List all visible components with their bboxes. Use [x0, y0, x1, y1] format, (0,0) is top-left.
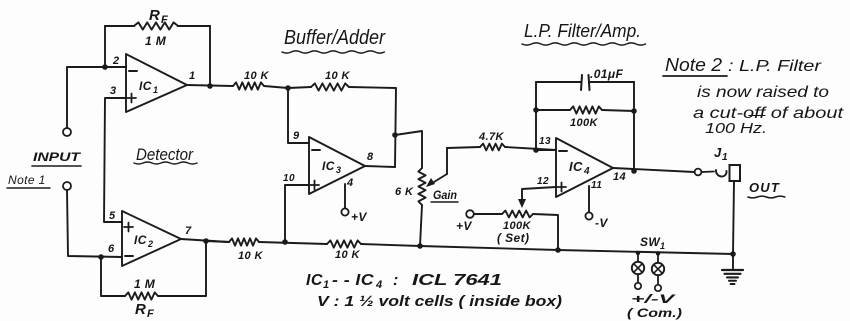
svg-text:IC: IC	[569, 159, 583, 174]
label INPUT	[33, 150, 82, 164]
svg-text:13: 13	[539, 136, 551, 147]
svg-text:9: 9	[293, 130, 300, 142]
svg-text:.01μF: .01μF	[590, 67, 624, 81]
svg-text:4: 4	[346, 177, 354, 189]
wire: pin 10 drop to rail	[285, 185, 309, 242]
wire: pin 11 drop	[588, 186, 590, 212]
jack J1 body (rectangle)	[730, 165, 741, 181]
underline Note 2	[663, 75, 727, 77]
underline Gain	[431, 201, 458, 203]
potentiometer 100K (Set)	[502, 211, 533, 218]
underline Buffer/Adder (wavy)	[282, 51, 384, 53]
terminal: IC3 +V (open circle)	[341, 208, 348, 215]
wire: SW1 drop 2	[657, 254, 659, 264]
wire: 100K pot to rail riser	[533, 214, 558, 250]
resistor 10K (bottom left)	[229, 238, 259, 245]
wire: IC3 output	[365, 166, 395, 167]
label 6K	[395, 186, 414, 198]
label pin 6	[108, 243, 115, 255]
node: set pot rail junction	[555, 247, 561, 253]
node: rail / IC3 plus junction	[282, 239, 288, 245]
label IC2	[134, 233, 153, 249]
label RF (bottom)	[135, 301, 154, 320]
node: 100K left junction	[533, 107, 539, 113]
wire: IC1 feedback left riser	[104, 26, 106, 67]
ground bars	[722, 270, 743, 284]
wire: rail right run	[361, 244, 733, 254]
underline INPUT	[32, 165, 81, 167]
resistor 4.7K	[480, 144, 505, 151]
wire: input top riser to pin 2	[67, 67, 126, 128]
label pin 5	[109, 210, 116, 222]
label 4.7K	[478, 131, 504, 143]
label pin 10	[283, 173, 295, 184]
svg-text:SW: SW	[640, 235, 661, 249]
svg-text:OUT: OUT	[749, 180, 780, 195]
wire: input bottom to pin 6	[67, 190, 122, 257]
label SW1	[640, 235, 665, 251]
svg-text:10: 10	[283, 173, 295, 184]
wire: 100K right lead	[602, 110, 634, 111]
node: IC3 minus input junction	[285, 85, 291, 91]
wire: IC2 feedback left drop	[101, 257, 125, 296]
resistor 100K (IC4 feedback)	[570, 106, 602, 113]
wire: IC4 feedback right riser	[633, 82, 635, 171]
svg-text:ICL 7641: ICL 7641	[412, 272, 502, 289]
svg-text:14: 14	[613, 171, 626, 183]
terminal: output plug tip (small circle)	[695, 169, 702, 176]
node: IC2 output/feedback junction	[203, 238, 209, 244]
terminal SW1-1 (small circle)	[635, 283, 641, 289]
node: pin2/feedback junction	[102, 64, 108, 70]
capacitor C .01uF plates	[581, 75, 590, 90]
label RF (top)	[149, 7, 168, 26]
svg-text:+/-V: +/-V	[631, 292, 676, 306]
terminal: input top (open circle)	[63, 128, 71, 136]
terminal SW1-2 (small circle)	[655, 285, 661, 291]
svg-text:1: 1	[189, 70, 196, 82]
node: rail / J1 ground junction	[730, 251, 736, 257]
wire: pin 3 to pin 5 riser	[104, 98, 126, 222]
underline Note 1	[7, 187, 50, 189]
svg-text:( Com.): ( Com.)	[627, 306, 682, 320]
svg-text:10 K: 10 K	[238, 250, 263, 262]
wire: 4.7K to pin 13	[505, 147, 556, 150]
label +V (IC3)	[351, 210, 367, 224]
svg-text:+V: +V	[456, 219, 472, 233]
IC1 minus sign	[129, 70, 137, 72]
IC3 plus sign	[310, 181, 319, 190]
svg-text:4: 4	[375, 279, 383, 291]
label 1M (top)	[145, 34, 167, 48]
svg-text:F: F	[161, 14, 168, 26]
label IC1	[139, 79, 158, 95]
wiper arrow of 100K set pot	[518, 199, 526, 208]
svg-text:2: 2	[147, 239, 153, 249]
svg-text:6: 6	[108, 243, 115, 255]
svg-text:F: F	[147, 308, 154, 320]
svg-text:5: 5	[109, 210, 116, 222]
label pin 1	[189, 70, 196, 82]
wire: IC3 feedback right riser	[349, 87, 396, 167]
potentiometer 6K (Gain)	[418, 168, 425, 205]
wire: 6K wiper riser	[446, 148, 448, 174]
label Note 1	[8, 173, 46, 187]
svg-text:IC: IC	[139, 79, 152, 93]
wire: IC1 feedback top-right lead	[178, 25, 210, 27]
wire: SW1 stem 1	[637, 274, 639, 283]
svg-text:1: 1	[660, 241, 665, 251]
label 1M (bottom)	[134, 277, 156, 291]
svg-text:7: 7	[185, 225, 192, 237]
label 100K (feedback)	[570, 117, 599, 129]
wire: node to 6K top	[395, 131, 422, 168]
svg-text:4.7K: 4.7K	[478, 131, 504, 143]
wire: SW1 drop 1	[637, 253, 639, 262]
svg-text:Note 1: Note 1	[8, 173, 46, 187]
label Detector	[136, 145, 194, 164]
wiper arrow of 6K	[426, 174, 447, 187]
wire: pin 12 to set-pot wiper	[522, 187, 556, 201]
resistor RF (1M, IC2 feedback)	[125, 292, 158, 299]
jack J1 hook	[716, 170, 727, 177]
wire: rail IC2-out to node A	[206, 241, 229, 242]
label pin 3	[110, 85, 117, 97]
ground stem	[732, 254, 734, 269]
wire: 100K left lead	[536, 109, 570, 111]
resistor RF (1M, IC1 feedback)	[134, 22, 178, 29]
IC2 plus sign	[124, 223, 133, 232]
wire: IC2 feedback right run	[158, 241, 206, 296]
svg-text:1: 1	[153, 85, 158, 95]
svg-text:V : 1 ½ volt cells ( inside b: V : 1 ½ volt cells ( inside box)	[317, 293, 562, 310]
node: pin6/feedback junction	[98, 254, 104, 260]
label +V (set pot)	[456, 219, 472, 233]
label pin 8	[367, 151, 374, 163]
label 10K (bottom left)	[238, 250, 263, 262]
label Note 2 colon + L.P. Filter	[728, 58, 822, 75]
svg-text:10 K: 10 K	[244, 70, 269, 82]
svg-text:IC: IC	[322, 159, 335, 173]
svg-text:12: 12	[537, 176, 549, 187]
wire: SW1 stem 2	[657, 275, 659, 285]
node: output/feedback junction	[631, 168, 637, 174]
svg-text:8: 8	[367, 151, 374, 163]
label OUT	[749, 180, 780, 195]
svg-text:- - IC: - - IC	[332, 272, 374, 289]
label 10K (bottom right)	[335, 249, 360, 261]
label pin 14	[613, 171, 626, 183]
IC3 minus sign	[312, 149, 320, 151]
wire: pin 9 drop	[288, 88, 309, 143]
svg-text:J: J	[714, 145, 722, 160]
label +/-V	[631, 292, 676, 306]
svg-text:100 Hz.: 100 Hz.	[705, 120, 767, 137]
terminal: IC4 -V (open circle)	[585, 212, 592, 219]
svg-text:Detector: Detector	[136, 145, 194, 164]
wire: 6K bottom to rail	[420, 205, 422, 246]
label Note 2 heading	[665, 55, 722, 75]
wire: IC1 feedback top-left lead	[105, 25, 134, 27]
terminal: input bottom (open circle)	[63, 182, 71, 190]
svg-text:1: 1	[722, 152, 728, 163]
wire: rail node A segment	[259, 242, 327, 244]
label (Set)	[497, 231, 529, 245]
svg-text::: :	[393, 272, 399, 289]
svg-text:4: 4	[583, 166, 590, 177]
wire: pin 4 drop	[344, 184, 346, 208]
wire: J1 to ground rail	[733, 181, 734, 254]
svg-text:6 K: 6 K	[395, 186, 414, 198]
label 10K (feedback)	[325, 70, 350, 82]
resistor 10K (IC3 feedback)	[311, 83, 349, 90]
switch contact 1 (circle-X)	[632, 262, 644, 274]
node: 6K tap junction	[392, 132, 398, 138]
svg-text:IC: IC	[306, 272, 323, 289]
label note2 line2	[697, 84, 829, 101]
svg-text:10 K: 10 K	[325, 70, 350, 82]
node: pin13/feedback junction	[533, 147, 539, 153]
wire: capacitor right lead	[590, 81, 634, 83]
svg-text:L.P. Filter/Amp.: L.P. Filter/Amp.	[524, 21, 641, 41]
resistor 10K (bottom right)	[327, 240, 361, 247]
node: SW1 tap 2	[656, 251, 660, 255]
label note2 line4	[705, 120, 767, 137]
svg-text:11: 11	[591, 180, 602, 191]
label pin 9	[293, 130, 300, 142]
IC2 minus sign	[125, 255, 133, 257]
terminal: +V for set pot (open circle)	[466, 210, 474, 218]
label 10K (first)	[244, 70, 269, 82]
underline Detector (wavy)	[134, 162, 197, 164]
label J1	[714, 145, 728, 163]
svg-text:2: 2	[112, 55, 120, 67]
op-amp IC2 triangle	[122, 211, 181, 266]
wire: plug link	[702, 171, 715, 174]
label pin 4	[346, 177, 354, 189]
svg-text:1: 1	[323, 279, 330, 291]
label .01uF	[590, 67, 624, 81]
label (Com.)	[627, 306, 682, 320]
label IC4	[569, 159, 590, 177]
node: 6K bottom rail junction	[417, 243, 423, 249]
IC4 minus sign	[559, 150, 567, 152]
svg-text:1 M: 1 M	[134, 277, 156, 291]
node: IC1 output/feedback junction	[207, 83, 213, 89]
node: SW1 tap 1	[636, 251, 640, 255]
switch contact 2 (circle-X)	[652, 263, 664, 275]
node: 100K right junction	[631, 108, 637, 114]
underline OUT (wavy)	[748, 196, 785, 198]
svg-text:3: 3	[336, 165, 341, 175]
wire: IC4 feedback left riser	[535, 82, 537, 150]
wire: wiper to 4.7K	[447, 147, 480, 148]
svg-text:INPUT: INPUT	[33, 150, 82, 164]
label 100K (set)	[503, 220, 532, 232]
svg-text:is now raised to: is now raised to	[697, 84, 829, 101]
svg-text:3: 3	[110, 85, 117, 97]
label pin 13	[539, 136, 551, 147]
label pin 12	[537, 176, 549, 187]
resistor 10K (IC1 to IC3)	[233, 82, 264, 89]
wire: IC1 feedback right riser	[209, 26, 211, 86]
wire: pin 13 into IC4	[536, 149, 556, 151]
wire: IC3 feedback lead left	[288, 87, 311, 88]
svg-text:R: R	[149, 7, 160, 24]
wire: IC1 output	[187, 85, 233, 86]
label battery note	[317, 293, 562, 310]
IC1 plus sign	[127, 94, 136, 103]
svg-text:R: R	[135, 301, 146, 318]
svg-text:: L.P. Filter: : L.P. Filter	[728, 58, 822, 75]
svg-text:Note 2: Note 2	[665, 55, 722, 75]
underline L.P. Filter/Amp. (wavy)	[522, 43, 646, 45]
wire: +V to 100K pot	[474, 213, 502, 215]
label note2 line3	[693, 105, 844, 122]
label pin 2	[112, 55, 120, 67]
wire: IC2 output	[181, 239, 229, 242]
svg-text:100K: 100K	[570, 117, 599, 129]
label pin 7	[185, 225, 192, 237]
op-amp IC1 triangle	[126, 54, 187, 112]
svg-text:( Set): ( Set)	[497, 231, 529, 245]
svg-text:10 K: 10 K	[335, 249, 360, 261]
svg-text:IC: IC	[134, 233, 147, 247]
svg-text:Gain: Gain	[433, 188, 457, 202]
label IC list	[306, 272, 502, 291]
svg-text:+V: +V	[351, 210, 367, 224]
svg-text:1 M: 1 M	[145, 34, 167, 48]
label L.P. Filter/Amp.	[524, 21, 641, 41]
wire: IC4 output	[613, 168, 694, 172]
label IC3	[322, 159, 341, 175]
label Gain	[433, 188, 457, 202]
IC4 plus sign	[557, 183, 566, 192]
wire: 10K to node	[264, 86, 288, 88]
wire: capacitor left lead	[536, 81, 581, 83]
label -V	[595, 216, 608, 230]
svg-text:-V: -V	[595, 216, 608, 230]
label Buffer/Adder	[284, 27, 386, 49]
op-amp IC4 triangle	[556, 138, 613, 197]
svg-text:Buffer/Adder: Buffer/Adder	[284, 27, 386, 49]
op-amp IC3 triangle	[309, 137, 365, 194]
label pin 11	[591, 180, 602, 191]
